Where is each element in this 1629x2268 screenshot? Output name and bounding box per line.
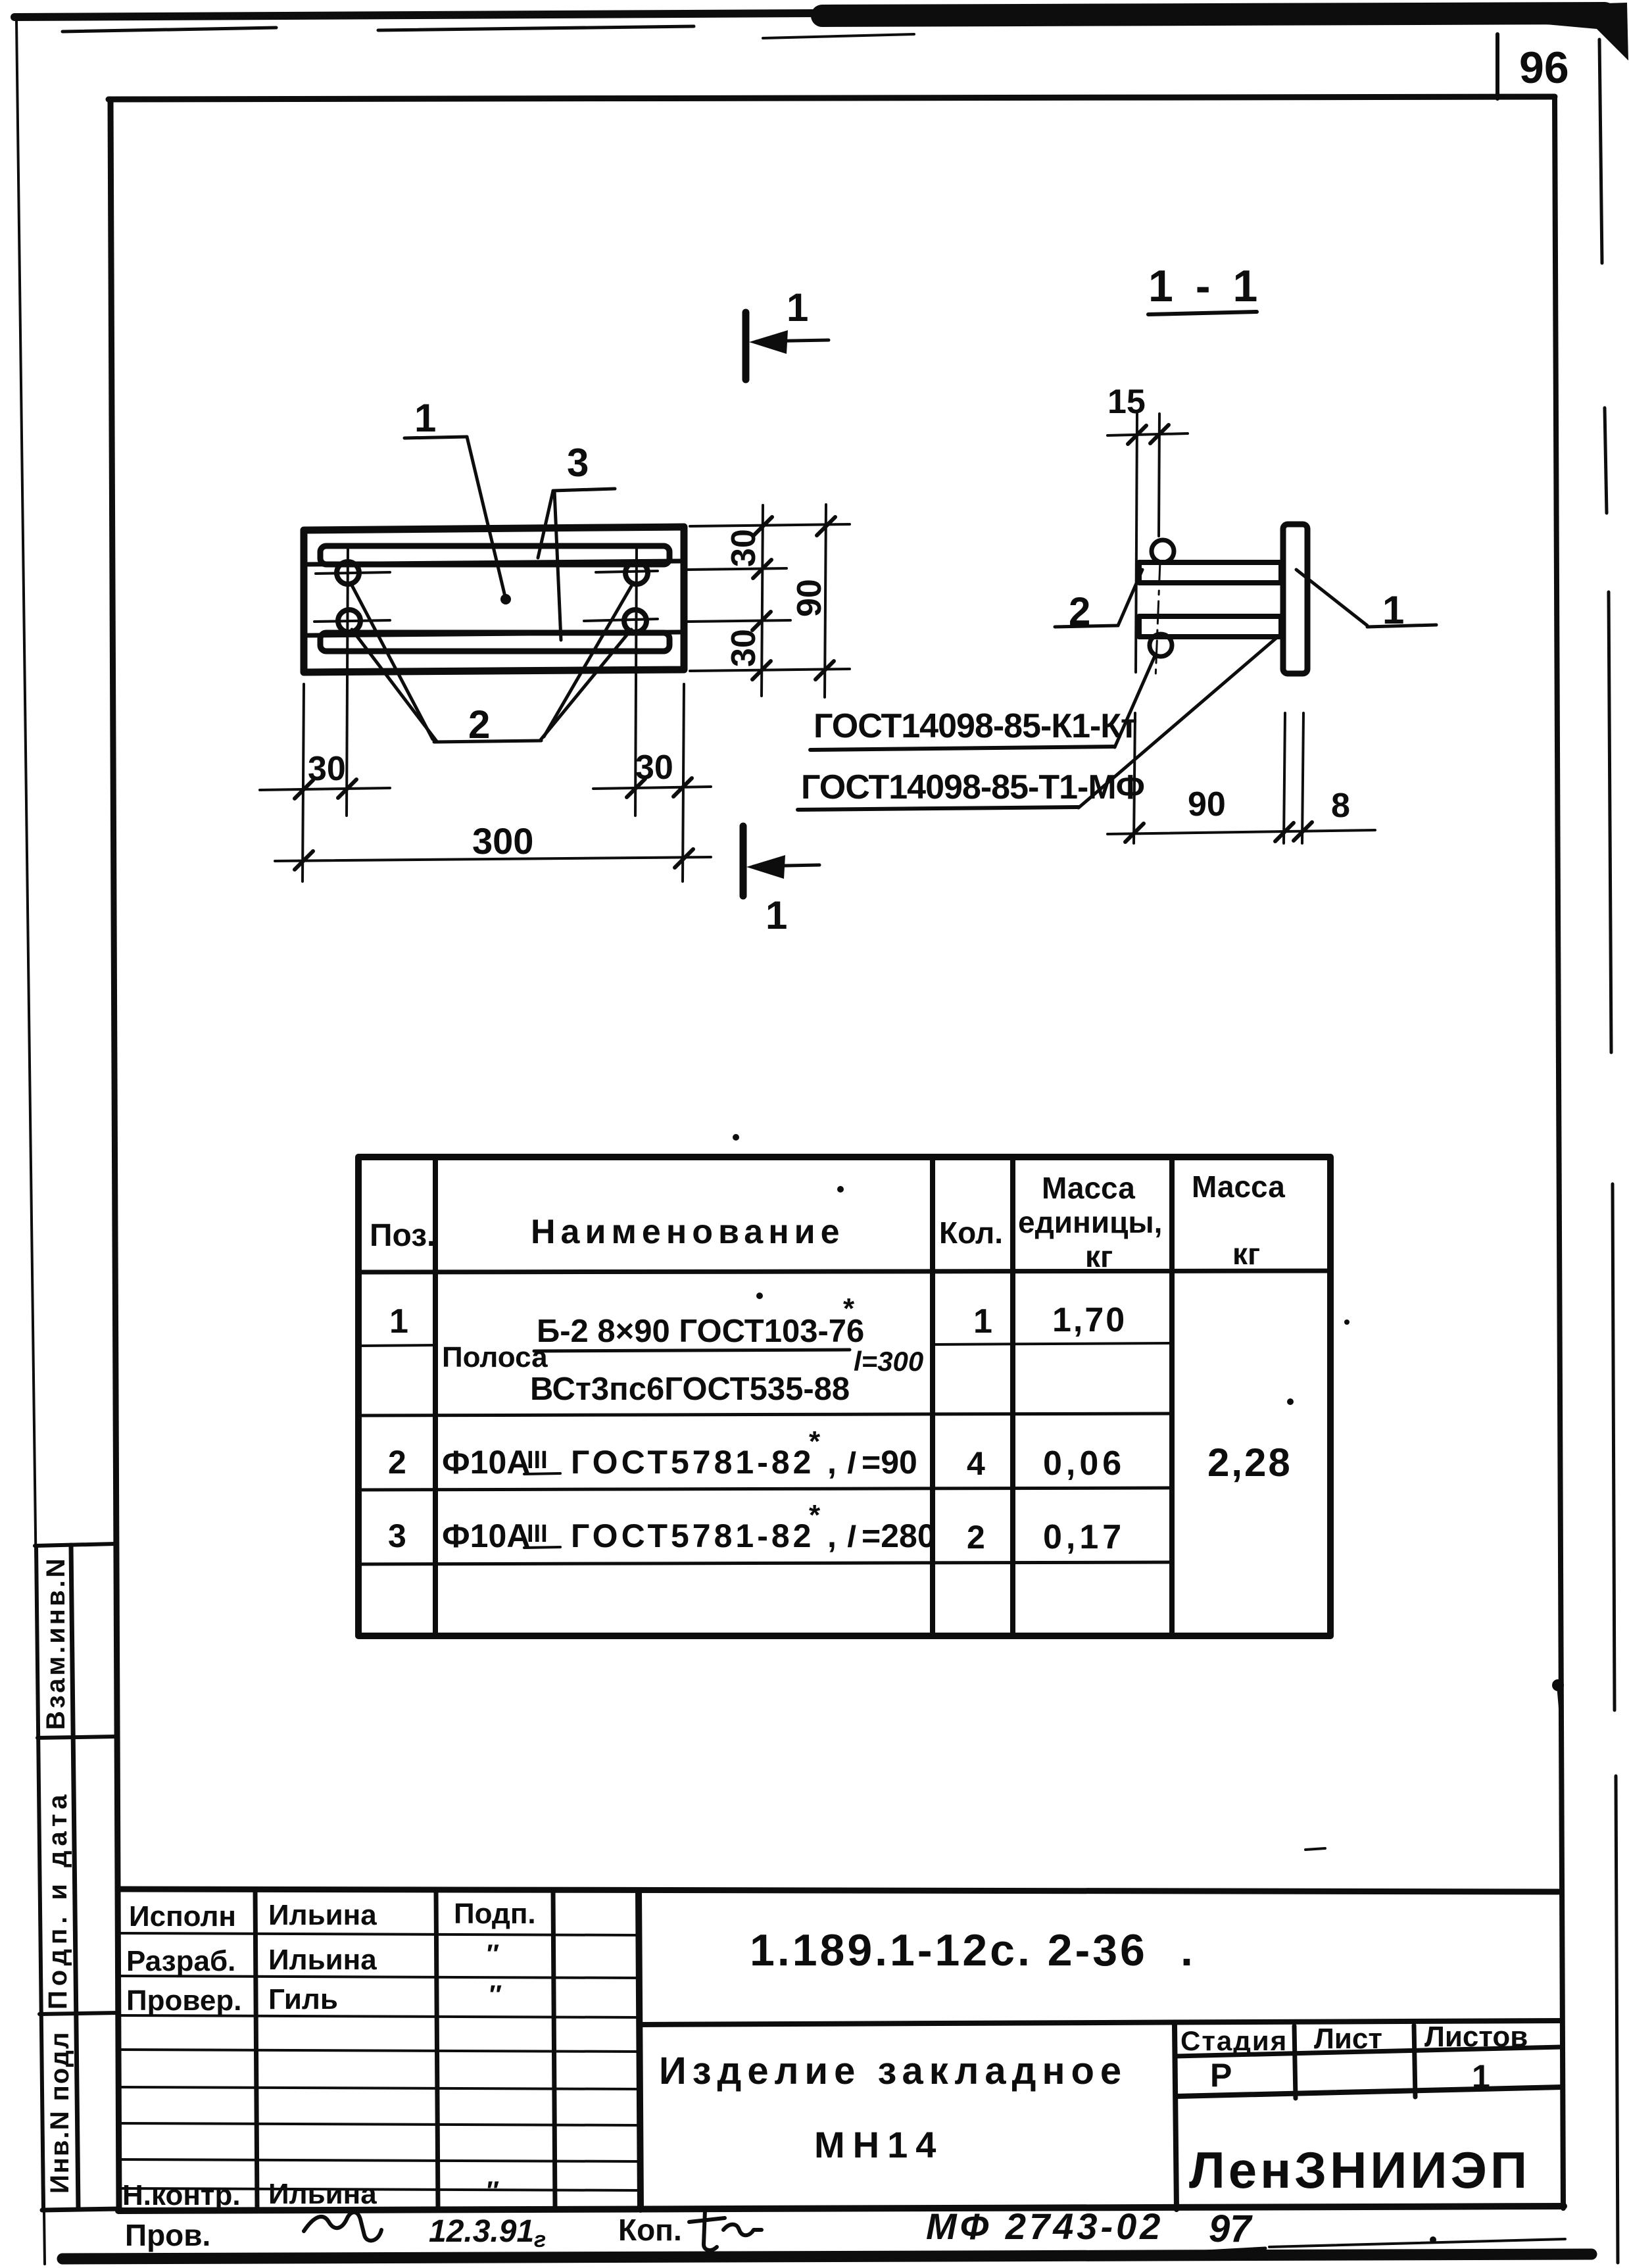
svg-text:″: ″ (487, 1940, 499, 1969)
svg-text:″: ″ (489, 1981, 502, 2009)
title block: name cell text Изделие закладное МН14 (659, 2050, 1127, 2165)
svg-text:1-1: 1-1 (1148, 261, 1280, 311)
svg-text:ГОСТ5781-82: ГОСТ5781-82 (571, 1444, 814, 1481)
title block: outer bottom line (118, 2206, 1564, 2211)
svg-text:15: 15 (1107, 383, 1146, 421)
svg-text:30: 30 (725, 529, 763, 567)
svg-text:*: * (843, 1293, 855, 1325)
svg-text:Масса: Масса (1192, 1170, 1285, 1204)
spec table: header bottom line (359, 1271, 1330, 1272)
svg-text:2: 2 (967, 1519, 985, 1556)
svg-text:Взам.инв.N: Взам.инв.N (41, 1556, 70, 1730)
title block row texts: Исполн Ильина Подп. (129, 1898, 536, 1933)
svg-text:Пров.: Пров. (125, 2218, 210, 2252)
svg-text:30: 30 (725, 629, 763, 667)
svg-text:Исполн: Исполн (129, 1900, 236, 1933)
svg-text:8: 8 (1331, 787, 1350, 825)
svg-text:ГОСТ5781-82: ГОСТ5781-82 (571, 1517, 814, 1554)
svg-text:l: l (847, 1446, 856, 1480)
svg-text:3: 3 (567, 441, 589, 485)
svg-text:Р: Р (1210, 2057, 1232, 2094)
svg-text:=90: =90 (862, 1444, 917, 1481)
spec row 1: qty and mass (973, 1301, 1127, 1341)
svg-text:=280: =280 (862, 1517, 936, 1554)
plan view: right dim line 30/30 chain (752, 505, 772, 696)
plan view: plate outline pos1 (304, 527, 684, 672)
svg-text:2: 2 (388, 1444, 406, 1481)
plan view: weld leader trapezoid to label 2 (351, 583, 633, 742)
border: outer right edge (broken) (1599, 39, 1618, 2263)
svg-text:1: 1 (787, 285, 808, 330)
svg-text:Масса: Масса (1042, 1171, 1135, 1205)
spec table: outer border (358, 1157, 1330, 1636)
spec row 1: Полоса fraction name (442, 1293, 923, 1407)
stage table values: Р and 1 (1210, 2057, 1490, 2095)
plan view: circle center verticals (347, 547, 637, 816)
svg-text:0,17: 0,17 (1043, 1518, 1125, 1556)
svg-text:2: 2 (468, 703, 490, 747)
svg-text:l: l (847, 1519, 856, 1554)
svg-text:МН14: МН14 (814, 2124, 944, 2165)
svg-text:Н.контр.: Н.контр. (122, 2179, 241, 2211)
svg-text:Стадия: Стадия (1180, 2025, 1288, 2056)
spec table: row lines (359, 1414, 1171, 1564)
svg-text:2,28: 2,28 (1207, 1441, 1292, 1485)
plan view: anchor circles pos2 (337, 562, 648, 632)
section 1-1: title (1148, 261, 1280, 314)
svg-text:Ильина: Ильина (268, 2178, 377, 2210)
svg-text:МФ 2743-02: МФ 2743-02 (926, 2206, 1163, 2247)
svg-text:ГОСТ14098-85-К1-Кт: ГОСТ14098-85-К1-Кт (814, 707, 1137, 745)
svg-text:Б-2 8×90 ГОСТ103-76: Б-2 8×90 ГОСТ103-76 (537, 1314, 864, 1349)
plan view: right dim texts 30 90 30 (725, 529, 829, 667)
svg-text:Подп. и дата: Подп. и дата (43, 1790, 72, 2009)
svg-text:Подп.: Подп. (454, 1898, 536, 1930)
weld spec label ГОСТ14098-85-Т1-МФ (798, 637, 1278, 810)
svg-text:1.189.1-12c. 2-36: 1.189.1-12c. 2-36 (750, 1925, 1148, 1975)
svg-text:Наименование: Наименование (531, 1213, 845, 1251)
plan view: top bar pos3 (306, 546, 680, 564)
section 1-1: dim 15 (1107, 383, 1188, 672)
title block: document number cell text 1.189.1-12c.2-36 (750, 1848, 1325, 1975)
footer row: Пров. signature date (125, 2210, 762, 2252)
spec table: row half line in row 1 (359, 1343, 1171, 1346)
svg-text:,: , (827, 1444, 837, 1481)
svg-text:III: III (527, 1520, 548, 1548)
svg-text:30: 30 (308, 750, 346, 788)
svg-text:Разраб.: Разраб. (126, 1945, 235, 1977)
svg-text:*: * (809, 1499, 821, 1531)
plan view: circle center horizontals (314, 571, 658, 622)
svg-text:″: ″ (487, 2177, 499, 2206)
plan view: bottom bar pos3 (306, 632, 680, 651)
svg-text:0,06: 0,06 (1043, 1444, 1125, 1483)
section cut mark upper (746, 285, 829, 380)
spec table: column lines (435, 1158, 1172, 1635)
svg-text:Лист: Лист (1314, 2023, 1382, 2055)
border: outer top edge band (14, 3, 1628, 61)
svg-text:Листов: Листов (1424, 2021, 1528, 2053)
section cut mark lower (743, 826, 819, 937)
title block row texts: Н.контр Ильина (122, 2177, 499, 2211)
svg-text:ВСт3пс6ГОСТ535-88: ВСт3пс6ГОСТ535-88 (530, 1371, 850, 1407)
svg-text:12.3.91: 12.3.91 (429, 2214, 534, 2249)
svg-text:1,70: 1,70 (1052, 1301, 1127, 1339)
svg-text:Ильина: Ильина (268, 1899, 377, 1931)
svg-text:Провер.: Провер. (126, 1985, 241, 2017)
svg-text:1: 1 (389, 1302, 408, 1341)
svg-text:г: г (534, 2227, 546, 2252)
section 1-1: flange plate pos1 (1283, 524, 1307, 674)
svg-text:96: 96 (1519, 43, 1569, 93)
spec table header: Масса кг (1192, 1170, 1285, 1271)
section 1-1: dim line 90 / 8 (1107, 785, 1375, 842)
plan view: bottom dim line 30 right (593, 749, 711, 797)
svg-text:ГОСТ14098-85-Т1-МФ: ГОСТ14098-85-Т1-МФ (801, 768, 1144, 806)
plan view: bottom dim line 300 (275, 820, 711, 870)
svg-text:1: 1 (414, 396, 436, 440)
svg-text:1: 1 (766, 893, 787, 937)
title block: line under doc number (639, 2021, 1560, 2025)
title block: left table verticals (255, 1889, 641, 2209)
section 1-1: weld circles (1150, 540, 1174, 656)
stage table texts: Стадия Лист Листов (1180, 2021, 1528, 2056)
svg-text:III: III (527, 1446, 548, 1474)
title block row texts: Провер. Гиль (126, 1981, 502, 2017)
section 1-1: label 1 with leader (1296, 570, 1436, 632)
svg-text:.: . (1180, 1925, 1193, 1975)
table dot specks (733, 1134, 1349, 1405)
svg-text:90: 90 (1188, 785, 1226, 824)
plan view: bottom extension lines (303, 684, 684, 881)
plan view: right extension lines (688, 524, 850, 671)
svg-text:90: 90 (790, 579, 829, 617)
weld spec label ГОСТ14098-85-К1-Кт (810, 654, 1155, 750)
svg-text:Ф10А: Ф10А (442, 1444, 530, 1481)
border: outer bottom edge band (62, 2254, 1592, 2259)
title block row texts: Разраб. Ильина (126, 1940, 499, 1977)
title block: stage table frame (1175, 2025, 1562, 2209)
section 1-1: top bar pos2 (1139, 562, 1281, 583)
svg-text:Изделие закладное: Изделие закладное (659, 2050, 1127, 2092)
section 1-1: label 2 with leader (1055, 570, 1142, 633)
plan view: right dim line 90 (815, 505, 835, 697)
svg-text:Инв.N подл: Инв.N подл (45, 2031, 74, 2194)
svg-text:300: 300 (472, 820, 533, 862)
border: outer left edge (16, 20, 45, 2264)
plan view: label 3 with two leaders (538, 441, 615, 640)
section 1-1: bottom bar pos2 (1139, 616, 1281, 637)
svg-text:Поз.: Поз. (370, 1218, 435, 1253)
svg-text:97: 97 (1209, 2207, 1253, 2250)
spec row 2: Ф10АIII ГОСТ5781-82, l=90 (388, 1425, 1125, 1483)
svg-text:1: 1 (1472, 2058, 1490, 2095)
spec row 3: Ф10АIII ГОСТ5781-82, l=280 (388, 1499, 1125, 1556)
svg-text:Коп.: Коп. (618, 2213, 682, 2247)
plan view: bottom dim line 30 left (260, 750, 390, 799)
svg-text:Кол.: Кол. (939, 1216, 1003, 1250)
svg-text:единицы,: единицы, (1018, 1205, 1162, 1239)
section 1-1: center line (1155, 562, 1160, 679)
svg-text:*: * (809, 1425, 821, 1458)
pin mark on right frame (1552, 1679, 1564, 1715)
svg-text:3: 3 (388, 1517, 406, 1554)
svg-text:,: , (827, 1517, 837, 1554)
svg-text:Ильина: Ильина (268, 1944, 377, 1976)
svg-text:4: 4 (967, 1445, 985, 1482)
left margin strip: box frame (35, 1544, 120, 2210)
svg-text:Полоса: Полоса (442, 1341, 548, 1373)
svg-text:Гиль: Гиль (268, 1983, 338, 2015)
svg-text:кг: кг (1085, 1239, 1113, 1273)
title block: left table row lines (118, 1933, 639, 2190)
svg-text:l=300: l=300 (854, 1346, 923, 1377)
section 1-1: dim 90 and 8 extension lines (1134, 713, 1303, 843)
spec table header: Масса единицы, кг (1018, 1171, 1162, 1273)
plan view: label 1 with leader and dot (404, 396, 511, 604)
svg-text:ЛенЗНИИЭП: ЛенЗНИИЭП (1189, 2141, 1530, 2199)
svg-text:1: 1 (973, 1302, 992, 1341)
svg-text:30: 30 (635, 749, 673, 787)
page number 96 (1497, 34, 1569, 99)
svg-text:кг: кг (1232, 1237, 1260, 1271)
footer text МФ 2743-02 97 (926, 2206, 1565, 2252)
svg-text:Ф10А: Ф10А (442, 1517, 530, 1554)
title block: outer top line (118, 1889, 1559, 1892)
